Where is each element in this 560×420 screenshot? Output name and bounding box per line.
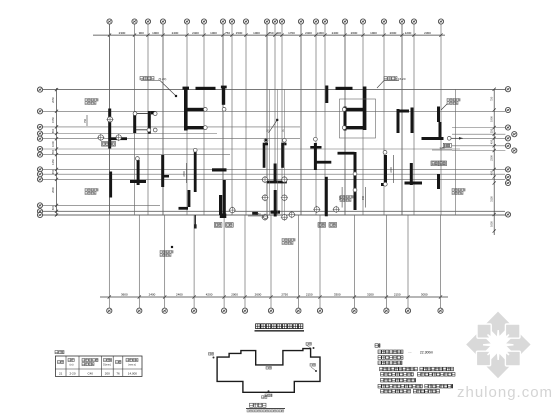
wall mirror-E spine bbox=[363, 87, 367, 131]
wall mid col C bbox=[194, 152, 197, 192]
svg-text:2150: 2150 bbox=[306, 293, 313, 297]
grid axis top 9 line bbox=[245, 24, 247, 215]
wall right stub bbox=[437, 174, 440, 189]
wall right col upper bbox=[437, 107, 440, 123]
wall center T1 bar bbox=[267, 181, 287, 184]
grid axis left I bubble bbox=[37, 172, 42, 177]
svg-text:2750: 2750 bbox=[281, 293, 288, 297]
leader dot 3 bbox=[171, 246, 173, 248]
svg-text:2400: 2400 bbox=[390, 167, 393, 173]
grid axis bottom 4 bubble bbox=[192, 308, 197, 313]
svg-text:2400: 2400 bbox=[192, 31, 199, 35]
grid axis top 12 line bbox=[281, 24, 283, 215]
grid axis right H bubble bbox=[505, 180, 510, 185]
grid axis left I line bbox=[43, 173, 505, 175]
wall label 6 bbox=[160, 251, 173, 257]
wall center col B cap bbox=[281, 143, 286, 146]
inline bubble 6 bbox=[281, 194, 288, 201]
double grid line c bbox=[283, 89, 285, 215]
internal dim mid bbox=[183, 163, 186, 183]
svg-text:1200: 1200 bbox=[405, 31, 412, 35]
svg-text:750: 750 bbox=[490, 96, 494, 101]
wall right-center L cap bbox=[338, 152, 355, 155]
right axis double bubble row D bbox=[512, 132, 517, 137]
grid axis bottom 1 bubble bbox=[107, 308, 112, 313]
svg-text:1900: 1900 bbox=[152, 31, 159, 35]
wall E-shape arm1 bbox=[184, 108, 205, 111]
wall-top bubble 18 bbox=[383, 182, 387, 186]
wall label 4 bbox=[452, 189, 465, 195]
wall mid T1 stem bbox=[137, 160, 140, 185]
grid axis top 19 bubble bbox=[399, 19, 404, 24]
wall right foot bbox=[422, 137, 444, 140]
grid axis top 21 bubble bbox=[438, 19, 443, 24]
svg-text:3050: 3050 bbox=[421, 293, 428, 297]
grid axis right G bubble bbox=[505, 174, 510, 179]
svg-text:1150: 1150 bbox=[439, 147, 445, 150]
bottom dimension line bbox=[100, 296, 448, 298]
svg-text:2300: 2300 bbox=[490, 155, 494, 161]
grid axis left H bubble bbox=[37, 167, 42, 172]
wall E-shape spine bbox=[184, 88, 188, 131]
grid axis top 4 bubble bbox=[160, 19, 165, 24]
grid axis top 18 bubble bbox=[381, 19, 386, 24]
right dimension line bbox=[493, 89, 495, 235]
grid axis left G bubble bbox=[37, 152, 42, 157]
grid axis top 17 line bbox=[362, 24, 364, 215]
grid axis left E bubble bbox=[37, 136, 42, 141]
wall top bar A bbox=[196, 87, 216, 90]
grid axis top 9 bubble bbox=[243, 19, 248, 24]
grid axis left M line bbox=[43, 214, 505, 216]
svg-text:2300: 2300 bbox=[119, 31, 126, 35]
wall-top bubble 12 bbox=[153, 112, 157, 116]
wall top center stub bbox=[325, 86, 328, 104]
svg-text:2300: 2300 bbox=[424, 31, 431, 35]
grid axis bottom 5 bubble bbox=[222, 308, 227, 313]
svg-text:14,000: 14,000 bbox=[128, 371, 138, 375]
grid axis bottom 3 line bbox=[164, 215, 166, 308]
internal dim left bbox=[84, 115, 87, 126]
svg-text:2400: 2400 bbox=[172, 31, 179, 35]
wall mid L vertical bbox=[223, 180, 226, 214]
drawing title bbox=[256, 324, 303, 329]
grid axis right A bubble bbox=[505, 87, 510, 92]
wall right-center column bbox=[354, 152, 357, 210]
grid axis bottom 7 bubble bbox=[268, 308, 273, 313]
internal dim topmid bbox=[432, 147, 452, 150]
wall B bbox=[133, 112, 136, 133]
grid axis left M bubble bbox=[37, 212, 42, 217]
svg-text:2150: 2150 bbox=[394, 293, 401, 297]
grid axis top 5 bubble bbox=[184, 19, 189, 24]
grid axis right I bubble bbox=[505, 212, 510, 217]
wall-top bubble 14 bbox=[342, 108, 346, 112]
grid axis right F bubble bbox=[505, 167, 510, 172]
svg-text:3200: 3200 bbox=[367, 293, 374, 297]
svg-text:1000: 1000 bbox=[210, 31, 217, 35]
svg-text:3300: 3300 bbox=[334, 293, 341, 297]
grid axis top 13 bubble bbox=[298, 19, 303, 24]
wall mirror-E arm1 bbox=[344, 108, 366, 111]
grid axis left D line bbox=[43, 133, 217, 135]
svg-text:C40: C40 bbox=[87, 371, 93, 375]
grid axis top 2 bubble bbox=[132, 19, 137, 24]
key plan outline bbox=[217, 349, 320, 393]
wall F cap bbox=[221, 86, 227, 89]
grid axis left B bubble bbox=[37, 109, 42, 114]
grid axis top 15 bubble bbox=[322, 19, 327, 24]
svg-text:450: 450 bbox=[490, 139, 494, 144]
svg-text:1500: 1500 bbox=[236, 31, 243, 35]
wall center col B bbox=[281, 145, 284, 168]
wall-top bubble 9 bbox=[353, 188, 357, 192]
grid axis bottom 9 bubble bbox=[317, 308, 322, 313]
internal dim mid3 bbox=[362, 187, 365, 208]
wall-top bubble 5 bbox=[314, 137, 318, 141]
title underline bbox=[255, 330, 305, 331]
grid axis right D bubble bbox=[505, 136, 510, 141]
grid axis top 18 line bbox=[383, 24, 385, 215]
wall center T2 stem bbox=[274, 190, 277, 217]
grid axis left A bubble bbox=[37, 87, 42, 92]
inline bubble 4 bbox=[281, 176, 288, 183]
grid axis right C bubble bbox=[505, 125, 510, 130]
inline bubble 3 bbox=[261, 176, 268, 183]
svg-text:550: 550 bbox=[51, 149, 55, 154]
wall right col lower bbox=[439, 122, 442, 140]
boxed label 6 bbox=[431, 161, 439, 166]
wall-top bubble 13 bbox=[153, 128, 157, 132]
svg-text:750: 750 bbox=[84, 118, 87, 123]
grid axis left D bubble bbox=[37, 131, 42, 136]
svg-text:....: .... bbox=[408, 350, 412, 354]
table header texts bbox=[58, 359, 139, 367]
grid axis top 15 line bbox=[324, 24, 326, 215]
svg-text:2400: 2400 bbox=[176, 293, 183, 297]
wall right upper bar bbox=[411, 108, 414, 134]
wall right T stem bbox=[410, 163, 413, 185]
grid axis left C bubble bbox=[37, 124, 42, 129]
svg-text:900: 900 bbox=[362, 195, 365, 200]
wall center cross stem bbox=[314, 143, 317, 170]
svg-text:22.300m: 22.300m bbox=[420, 350, 433, 354]
grid axis top 21 line bbox=[440, 24, 442, 215]
grid axis bottom 6 line bbox=[244, 215, 246, 308]
svg-text:250: 250 bbox=[490, 128, 494, 133]
inline bubble 7 bbox=[261, 214, 268, 221]
wall mid col B bbox=[109, 172, 112, 198]
grid axis top 2 line bbox=[134, 24, 136, 215]
wall F bbox=[222, 86, 225, 105]
grid axis top 7 bubble bbox=[220, 19, 225, 24]
boxed label 2 bbox=[214, 223, 222, 228]
grid axis bottom 11 bubble bbox=[384, 308, 389, 313]
wall E-shape arm2 bbox=[184, 126, 205, 129]
boxed label 1 bbox=[102, 142, 116, 147]
wall-top bubble 17 bbox=[147, 128, 151, 132]
wall-top bubble 2 bbox=[193, 148, 197, 152]
grid axis left C line bbox=[43, 126, 300, 128]
wall-top bubble 1 bbox=[136, 157, 140, 161]
wall-top bubble 10 bbox=[203, 108, 207, 112]
wall right upper L arm bbox=[397, 110, 410, 113]
grid axis left K line bbox=[43, 204, 160, 206]
internal dim center bbox=[248, 213, 268, 216]
wall mid col A arm bbox=[162, 175, 169, 178]
leader dot 1 bbox=[265, 139, 267, 141]
wall right mid col bbox=[384, 155, 387, 186]
inline bubble 9 bbox=[313, 206, 320, 213]
svg-text:600: 600 bbox=[51, 205, 55, 210]
grid axis bottom 13 bubble bbox=[438, 308, 443, 313]
grid axis top 3 bubble bbox=[145, 19, 150, 24]
wall-top bubble 15 bbox=[342, 126, 346, 130]
grid axis left F bubble bbox=[37, 146, 42, 151]
svg-text:1650: 1650 bbox=[490, 221, 494, 227]
grid axis bottom 8 bubble bbox=[296, 308, 301, 313]
room outline bbox=[340, 99, 376, 138]
grid axis top 20 line bbox=[413, 24, 415, 215]
grid axis left G line bbox=[43, 154, 230, 156]
wall top bar B bbox=[336, 87, 353, 90]
grid axis bottom 8 line bbox=[297, 215, 299, 308]
svg-text:200: 200 bbox=[105, 371, 110, 375]
wall mid T1 bar bbox=[130, 180, 146, 183]
column stub below plan bbox=[194, 215, 197, 229]
svg-text:1300: 1300 bbox=[317, 31, 324, 35]
key plan caption bbox=[246, 403, 285, 412]
grid axis top 1 bubble bbox=[107, 19, 112, 24]
right dimension numbers bbox=[490, 96, 494, 227]
grid axis top 6 bubble bbox=[201, 19, 206, 24]
grid axis top 4 line bbox=[162, 24, 164, 215]
right axis double bubble row E bbox=[512, 148, 517, 153]
leader dot 2 bbox=[175, 95, 177, 97]
wall label 3 bbox=[447, 99, 460, 105]
wall bottom stub A bbox=[219, 195, 222, 215]
svg-text:3150: 3150 bbox=[490, 196, 494, 202]
grid axis top 7 line bbox=[222, 24, 224, 215]
wall mid col C2 bbox=[188, 190, 191, 207]
bubble below plan right bbox=[264, 215, 268, 219]
svg-text:D(mm): D(mm) bbox=[103, 364, 111, 367]
general notes bbox=[375, 344, 455, 393]
wall center cross bar bbox=[310, 146, 321, 149]
wall center T1 stem bbox=[274, 164, 277, 184]
grid axis bottom 1 line bbox=[108, 215, 110, 308]
svg-text:2400: 2400 bbox=[305, 31, 312, 35]
svg-text:2600: 2600 bbox=[351, 31, 358, 35]
tiny texts near center tops bbox=[266, 130, 285, 133]
leader floor level 15.20 bbox=[377, 81, 399, 89]
table label bbox=[55, 351, 64, 354]
left dimension line bbox=[56, 88, 58, 216]
svg-text:1550: 1550 bbox=[51, 117, 55, 123]
wall mid col A bbox=[161, 155, 164, 187]
wall-top bubble 4 bbox=[283, 138, 287, 142]
wall-top bubble 8 bbox=[353, 172, 357, 176]
wall mirror-E leg bbox=[344, 107, 347, 131]
svg-text:1450: 1450 bbox=[51, 159, 55, 165]
leader right label bbox=[441, 104, 447, 110]
wall-top bubble 7 bbox=[222, 107, 226, 111]
internal dim mid2 bbox=[390, 155, 393, 183]
svg-text:1150: 1150 bbox=[255, 213, 261, 216]
grid axis top 13 line bbox=[300, 24, 302, 215]
inline bubble 10 bbox=[333, 206, 340, 213]
wall left L foot bbox=[109, 137, 127, 140]
grid axis bottom 2 bubble bbox=[137, 308, 142, 313]
svg-text:(m): (m) bbox=[70, 363, 74, 367]
grid axis left A line bbox=[43, 89, 505, 91]
grid axis bottom 3 bubble bbox=[162, 308, 167, 313]
wall-top bubble 16 bbox=[133, 112, 137, 116]
grid axis bottom 12 bubble bbox=[405, 308, 410, 313]
svg-text:900: 900 bbox=[339, 195, 342, 200]
grid axis bottom 10 bubble bbox=[352, 308, 357, 313]
grid axis top 3 line bbox=[147, 24, 149, 215]
wall C bbox=[148, 111, 151, 134]
grid axis top 10 line bbox=[266, 24, 268, 215]
grid axis top 14 bubble bbox=[313, 19, 318, 24]
grid axis right E bubble bbox=[505, 143, 510, 148]
grid axis top 20 bubble bbox=[411, 19, 416, 24]
svg-text:76: 76 bbox=[116, 371, 120, 375]
grid axis top 12 bubble bbox=[279, 19, 284, 24]
wall mirror-E arm2 bbox=[344, 126, 366, 129]
grid axis top 16 line bbox=[344, 24, 346, 215]
wall mid col C2 foot bbox=[179, 207, 189, 210]
svg-text:1000: 1000 bbox=[51, 141, 55, 147]
label floor level 15.20 bbox=[384, 77, 406, 81]
grid axis right B bubble bbox=[505, 107, 510, 112]
grid axis bottom 4 line bbox=[193, 215, 195, 308]
grid axis top 11 bubble bbox=[272, 19, 277, 24]
svg-text:15.20: 15.20 bbox=[398, 77, 406, 81]
double grid line b bbox=[277, 89, 279, 215]
internal dim mid4 bbox=[339, 187, 342, 208]
grid axis left F line bbox=[43, 148, 460, 150]
grid axis left L bubble bbox=[37, 209, 42, 214]
grid axis bottom 12 line bbox=[407, 215, 409, 308]
wall right T bar bbox=[405, 182, 423, 185]
inline bubble 13 bbox=[288, 211, 295, 218]
svg-text:2050: 2050 bbox=[51, 97, 55, 103]
leader roof level bbox=[269, 119, 279, 133]
schedule table bbox=[55, 356, 142, 376]
grid axis left H line bbox=[43, 168, 505, 170]
wall mid L foot bbox=[220, 214, 227, 219]
svg-text:2-20: 2-20 bbox=[69, 371, 75, 375]
table data row bbox=[59, 371, 137, 375]
grid axis bottom 6 bubble bbox=[242, 308, 247, 313]
grid axis left E line bbox=[43, 138, 300, 140]
grid axis bottom 5 line bbox=[223, 215, 225, 308]
inline bubble 5 bbox=[261, 194, 268, 201]
extra grid vertical right wing bbox=[455, 89, 457, 215]
wall C corner bbox=[151, 111, 155, 114]
grid axis left L line bbox=[43, 210, 505, 212]
wall center col C bbox=[325, 177, 328, 217]
bottom dimension ticks bbox=[108, 295, 442, 298]
grid axis bottom 10 line bbox=[353, 215, 355, 308]
top dimension line bbox=[93, 34, 445, 36]
svg-text:1000: 1000 bbox=[253, 31, 260, 35]
wall E-shape cap bbox=[183, 87, 190, 90]
wall right mid foot bbox=[381, 183, 387, 186]
svg-text:(mm:s): (mm:s) bbox=[128, 364, 136, 367]
top dimension ticks bbox=[108, 34, 443, 37]
svg-text:650: 650 bbox=[51, 128, 55, 133]
label floor level 5.20 bbox=[140, 77, 166, 82]
grid axis top 16 bubble bbox=[342, 19, 347, 24]
wall label 5 bbox=[340, 196, 353, 202]
right horizontal stubs bbox=[452, 128, 505, 151]
small wall below plan right bbox=[252, 212, 258, 215]
wall-top bubble 11 bbox=[203, 126, 207, 130]
bottom dimension numbers bbox=[121, 293, 428, 297]
svg-text:1900: 1900 bbox=[490, 116, 494, 122]
wall label 1 bbox=[85, 99, 98, 105]
svg-text:(5.20): (5.20) bbox=[159, 77, 167, 81]
boxed label 7 bbox=[439, 161, 447, 166]
svg-text:1700: 1700 bbox=[288, 31, 295, 35]
grid axis bottom 7 line bbox=[270, 215, 272, 308]
svg-text:2600: 2600 bbox=[255, 293, 262, 297]
svg-text:900: 900 bbox=[139, 31, 144, 35]
svg-text:2400: 2400 bbox=[332, 31, 339, 35]
grid axis top 8 bubble bbox=[229, 19, 234, 24]
svg-text:400: 400 bbox=[276, 31, 281, 35]
svg-text:1900: 1900 bbox=[370, 31, 377, 35]
ladder connector bottom bbox=[136, 129, 148, 131]
top dimension numbers bbox=[119, 31, 432, 35]
svg-text:450: 450 bbox=[51, 169, 55, 174]
key plan tiny mark bbox=[262, 396, 268, 399]
inline bubble 11 bbox=[106, 116, 113, 123]
grid axis top 5 line bbox=[186, 24, 188, 215]
svg-text:4200: 4200 bbox=[206, 293, 213, 297]
grid axis bottom 9 line bbox=[319, 215, 321, 308]
wall center T2 bar bbox=[271, 211, 281, 214]
inline bubble 2 bbox=[115, 134, 122, 141]
boxed label 4 bbox=[318, 223, 326, 228]
grid axis top 14 line bbox=[315, 24, 317, 215]
grid axis top 11 line bbox=[274, 24, 276, 215]
ladder connector top bbox=[136, 113, 148, 115]
key plan marks bbox=[209, 343, 318, 397]
boxed label right bbox=[443, 143, 451, 147]
grid axis left K bubble bbox=[37, 203, 42, 208]
svg-text:2400: 2400 bbox=[183, 171, 186, 177]
leader floor level 5.20 bbox=[141, 81, 176, 97]
boxed label 5 bbox=[329, 223, 337, 228]
watermark logo bbox=[466, 312, 530, 379]
grid axis bottom 13 line bbox=[440, 215, 442, 308]
wall-top bubble 6 bbox=[383, 150, 387, 154]
svg-text:3600: 3600 bbox=[121, 293, 128, 297]
svg-text:2600: 2600 bbox=[51, 187, 55, 193]
inline bubble 12 bbox=[229, 207, 236, 214]
svg-text:2000: 2000 bbox=[390, 31, 397, 35]
grid axis left J bubble bbox=[37, 177, 42, 182]
grid axis top 1 line bbox=[109, 24, 111, 215]
wall center col A bbox=[263, 145, 266, 168]
wall mid L bar bbox=[212, 168, 227, 171]
svg-text:750: 750 bbox=[225, 31, 230, 35]
wall left L vertical bbox=[108, 109, 111, 149]
